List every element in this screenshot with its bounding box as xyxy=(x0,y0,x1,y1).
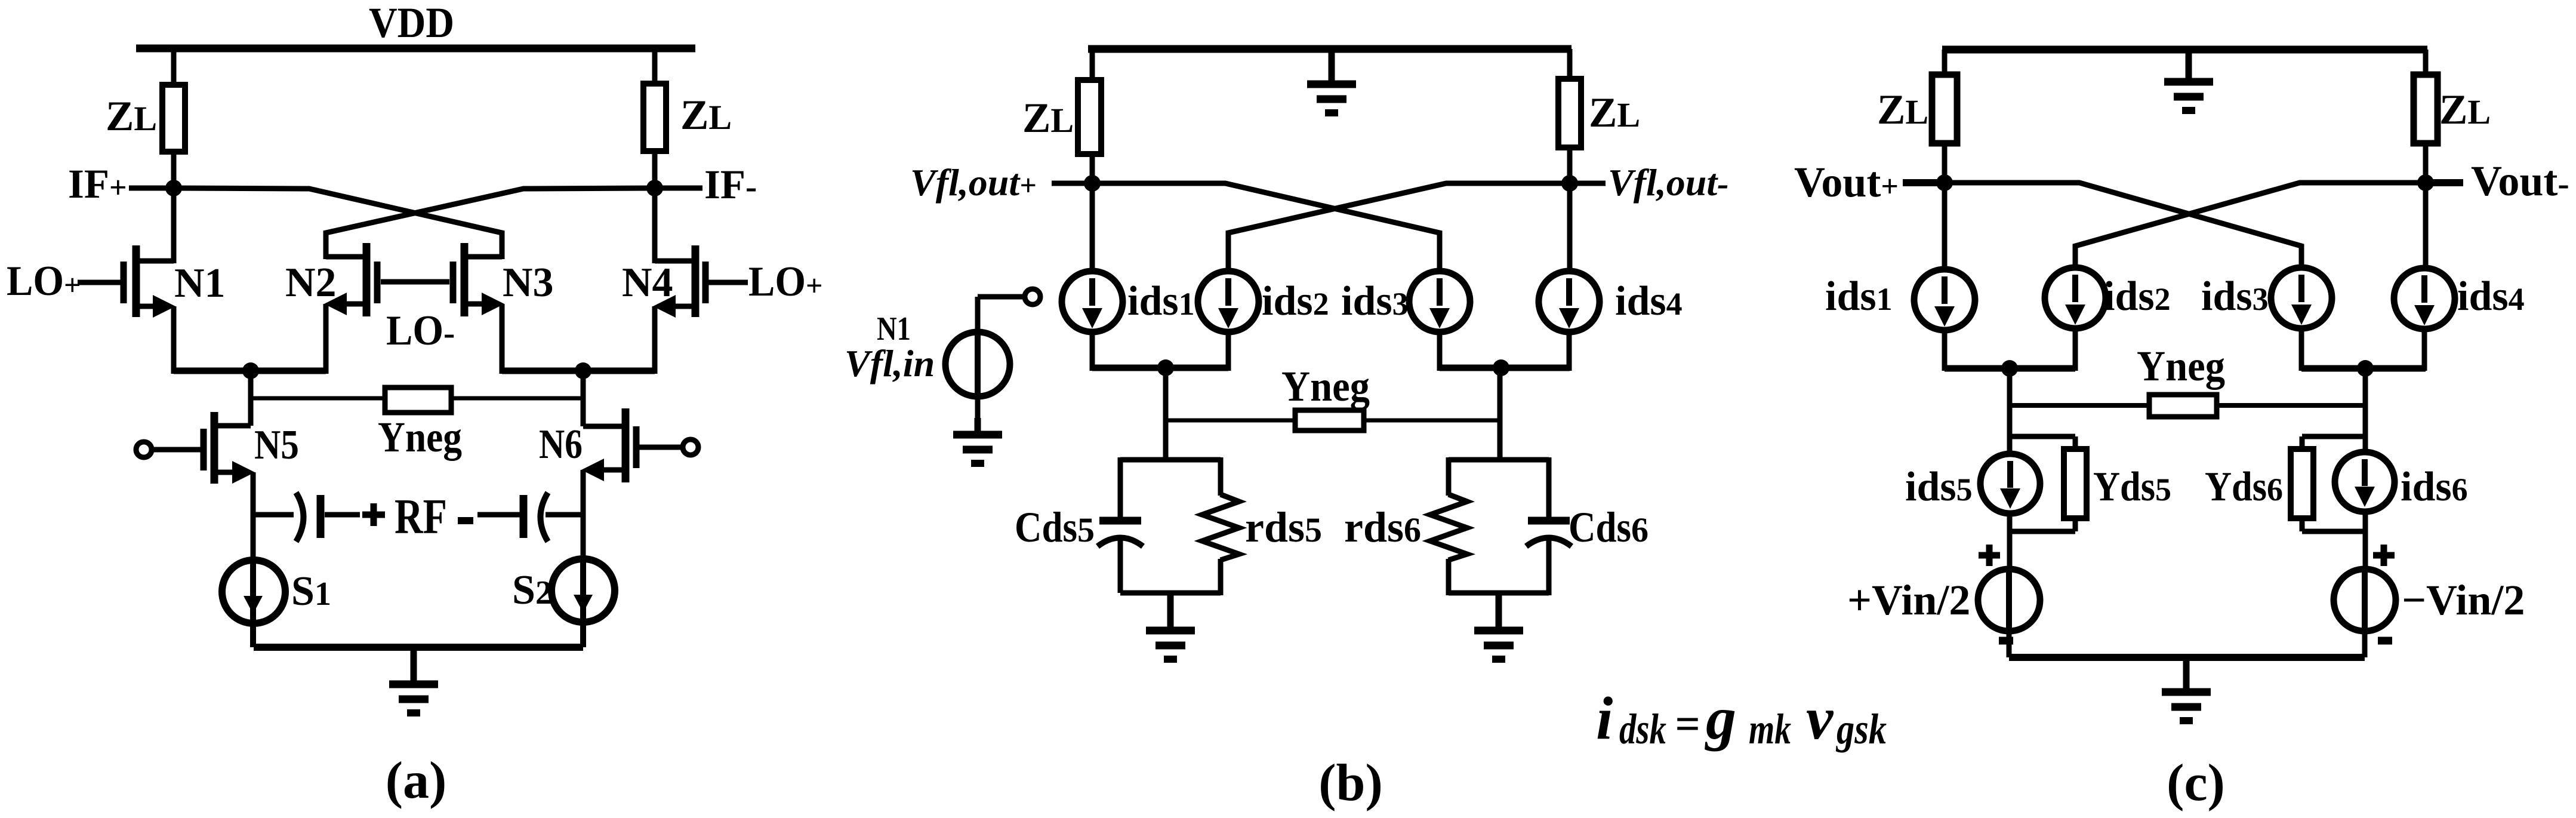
label minus sign (Vin- source) xyxy=(2378,637,2392,645)
label S1 xyxy=(291,568,331,614)
label N6 xyxy=(539,422,583,468)
current source ids3 arrow (b) xyxy=(1429,278,1450,328)
svg-text:(b): (b) xyxy=(1318,754,1383,812)
svg-text:N1: N1 xyxy=(174,260,226,306)
svg-text:ZL: ZL xyxy=(1877,87,1928,133)
current source ids4 arrow (b) xyxy=(1559,278,1579,328)
transistor N1 channel bar xyxy=(133,245,140,317)
current source S1 arrow xyxy=(244,596,263,614)
transistor N5 drain stub xyxy=(218,423,251,429)
transistor N6 gate wire xyxy=(639,445,683,450)
transistor N6 gate bar xyxy=(633,426,640,468)
node label Vfl,out- xyxy=(1608,161,1728,204)
node label IF- xyxy=(704,162,757,207)
label N3 xyxy=(503,260,554,306)
label N4 xyxy=(622,260,673,306)
wire left tail to N5 drain xyxy=(248,371,254,426)
label N1 xyxy=(174,260,226,306)
wire S1 through xyxy=(250,564,256,647)
wire Yds5 top lead xyxy=(2073,436,2078,451)
current source ids1 arrow (c) xyxy=(1934,276,1955,327)
label Yds6 xyxy=(2205,464,2283,510)
capacitor Cds6 flat plate xyxy=(1528,517,1570,525)
wire N6 source down xyxy=(581,470,586,562)
capacitor Cds5 flat plate xyxy=(1099,517,1141,525)
wire ids4 bottom (c) xyxy=(2422,329,2427,371)
svg-text:(c): (c) xyxy=(2167,754,2225,812)
wire N5 source down xyxy=(251,472,256,564)
wire rc6 box top xyxy=(1449,457,1549,463)
svg-text:ZL: ZL xyxy=(106,93,157,140)
svg-text:rds5: rds5 xyxy=(1245,503,1322,551)
label LO+ (left) xyxy=(7,258,81,305)
label ZL (b left) xyxy=(1022,95,1074,142)
svg-text:rds6: rds6 xyxy=(1344,503,1421,551)
node label Vout+ xyxy=(1794,158,1899,206)
transistor N1 gate wire xyxy=(78,280,122,285)
ground (b top) xyxy=(1307,49,1356,113)
svg-text:(a): (a) xyxy=(386,752,447,810)
wire rc6 box left upper xyxy=(1446,457,1452,496)
current source ids1 circle (b) xyxy=(1062,271,1123,332)
wire rc5 box top xyxy=(1120,457,1221,463)
wire right tail bus xyxy=(502,368,655,374)
ground (c top) xyxy=(2164,50,2213,110)
resistor ZL (b right) xyxy=(1558,79,1581,147)
label (b) xyxy=(1318,754,1383,812)
transistor N1 drain stub xyxy=(136,259,174,264)
resistor Yds5 xyxy=(2064,449,2087,518)
transistor N3 gate bar xyxy=(450,262,457,303)
transistor N6 source arrow xyxy=(581,459,604,481)
wire Vfl,out+ stub xyxy=(1052,181,1092,186)
svg-text:VDD: VDD xyxy=(369,0,454,47)
capacitor RF left curved plate xyxy=(296,493,304,542)
svg-text:Vfl,in: Vfl,in xyxy=(845,342,935,385)
net label VDD xyxy=(369,0,454,47)
wire N3 source down xyxy=(500,304,505,374)
label ids4 (c) xyxy=(2457,273,2525,319)
wire Yds6 bottom stub xyxy=(2302,529,2365,534)
svg-text:+Vin/2: +Vin/2 xyxy=(1847,576,1970,624)
wire cross-couple Vfl,out- to ids2 xyxy=(1228,183,1570,272)
current source ids4 arrow (c) xyxy=(2414,275,2435,325)
junction IF- xyxy=(646,180,663,196)
wire VDD to ZL left xyxy=(171,45,177,87)
current source S2 circle xyxy=(551,559,615,622)
label RF plus sign xyxy=(362,503,385,526)
wire ZL right to IF- node xyxy=(652,149,658,191)
svg-text:ZL: ZL xyxy=(2439,87,2491,133)
wire bus to ZL (b left) xyxy=(1090,49,1095,82)
wire Vfl,in top xyxy=(975,297,981,334)
svg-text:S2: S2 xyxy=(512,567,552,613)
current source S1 circle xyxy=(222,560,285,623)
transistor N1 gate bar xyxy=(121,262,127,303)
transistor N4 drain stub xyxy=(655,259,695,264)
current source ids3 circle (b) xyxy=(1409,271,1470,332)
wire ids6 to Vin- source xyxy=(2363,511,2368,571)
label Cds6 xyxy=(1569,503,1648,551)
current source ids1 arrow (b) xyxy=(1082,278,1102,328)
wire ids1 bottom (b) xyxy=(1090,332,1095,371)
wire rc6 box bottom xyxy=(1449,591,1549,596)
ground (c bottom) xyxy=(2162,657,2211,721)
wire Vfl,in through xyxy=(975,332,981,398)
node label Vfl,out+ xyxy=(910,161,1037,204)
equation idsk = gmk vgsk xyxy=(1596,685,1887,753)
transistor N3 source arrow xyxy=(482,293,504,315)
svg-text:S1: S1 xyxy=(291,568,331,614)
label plus sign (Vin+ source) xyxy=(1979,545,2000,566)
label Yds5 xyxy=(2093,464,2171,510)
wire ids3 bottom (b) xyxy=(1437,332,1443,371)
transistor N3 channel bar xyxy=(461,243,469,316)
transistor N6 channel bar xyxy=(622,408,630,482)
svg-text:N6: N6 xyxy=(539,422,583,468)
svg-text:Cds5: Cds5 xyxy=(1015,503,1095,551)
wire ids3 bottom (c) xyxy=(2299,328,2304,371)
label ZL (a right) xyxy=(680,92,732,139)
label ids5 xyxy=(1905,464,1973,510)
label (c) xyxy=(2167,754,2225,812)
transistor N5 gate wire xyxy=(152,447,201,453)
svg-text:−Vin/2: −Vin/2 xyxy=(2402,576,2525,624)
wire Vfl,out- to ids4 xyxy=(1567,183,1573,273)
wire Vfl,in bottom xyxy=(975,396,981,432)
wire N2-N3 gate link xyxy=(381,279,449,285)
wire bottom bus (c) xyxy=(2009,654,2365,661)
svg-text:N4: N4 xyxy=(622,260,673,306)
resistor ZL (a left) xyxy=(162,85,185,152)
wire Vfl,out- stub xyxy=(1570,181,1606,186)
transistor N6 source stub xyxy=(598,468,622,473)
wire rc6 box right lower xyxy=(1546,536,1552,595)
voltage source -Vin/2 circle xyxy=(2334,569,2396,631)
resistor rds6 zigzag xyxy=(1430,494,1467,560)
wire ZL left to IF+ node xyxy=(171,149,177,191)
wire Yneg left (c) xyxy=(2010,403,2152,408)
wire cross-couple Vfl,out+ to ids3 xyxy=(1092,183,1440,272)
label Cds5 xyxy=(1015,503,1095,551)
junction left tail (c) xyxy=(2001,360,2018,377)
wire RF left to plus xyxy=(325,512,360,518)
wire Yds6 top stub xyxy=(2302,434,2365,439)
label Yneg (b) xyxy=(1281,362,1370,410)
resistor ZL (c right) xyxy=(2414,75,2438,143)
transistor N1 source arrow xyxy=(153,295,175,318)
ground (Vfl,in) xyxy=(953,418,1002,463)
junction right tail node xyxy=(575,362,591,379)
junction Vfl,out+ xyxy=(1084,175,1101,192)
svg-text:ZL: ZL xyxy=(1022,95,1074,142)
wire N1 source down xyxy=(171,306,177,374)
junction right tail (c) xyxy=(2357,360,2374,377)
wire Yds5 top stub xyxy=(2010,434,2075,439)
wire top bus (b) xyxy=(1088,45,1572,53)
junction left tail node xyxy=(242,362,259,379)
current source ids1 circle (c) xyxy=(1914,269,1975,330)
current source ids6 circle xyxy=(2335,452,2395,512)
junction left tail (b) xyxy=(1157,359,1174,376)
transistor N1 source stub xyxy=(136,304,164,309)
svg-text:Yneg: Yneg xyxy=(1281,362,1370,410)
wire rc6 box left lower xyxy=(1446,559,1452,595)
junction Vfl,out- xyxy=(1561,175,1578,192)
wire IF+ stub xyxy=(129,186,174,191)
svg-text:Vfl,out-: Vfl,out- xyxy=(1608,161,1728,204)
voltage source +Vin/2 circle xyxy=(1978,569,2040,631)
svg-text:Yneg: Yneg xyxy=(2137,342,2225,390)
label S2 xyxy=(512,567,552,613)
wire RF right to cap xyxy=(477,512,523,518)
label LO+ (right) xyxy=(748,259,823,305)
label RF xyxy=(395,489,447,545)
wire bus to ZL (c left) xyxy=(1942,50,1948,77)
transistor N2 gate bar xyxy=(374,262,381,303)
wire ids2 bottom (b) xyxy=(1226,332,1231,371)
svg-text:IF-: IF- xyxy=(704,162,757,207)
wire rc5 box right lower xyxy=(1218,559,1224,595)
transistor N4 gate wire xyxy=(708,280,748,285)
capacitor RF right flat plate xyxy=(520,495,528,538)
current source ids2 arrow (b) xyxy=(1218,278,1238,328)
transistor N2 channel bar xyxy=(363,243,371,316)
wire Vout- stub xyxy=(2426,179,2463,186)
resistor Yneg (b) xyxy=(1295,410,1364,430)
current source ids5 circle xyxy=(1980,454,2040,513)
capacitor RF left flat plate xyxy=(317,495,325,538)
transistor N6 drain stub xyxy=(583,424,622,429)
wire Vfl,in terminal xyxy=(978,294,1025,300)
wire Yneg left (a) xyxy=(251,396,387,401)
wire Vfl,out+ to ids1 xyxy=(1090,183,1095,273)
label N2 xyxy=(285,260,337,306)
label ids3 (c) xyxy=(2201,273,2269,319)
svg-text:dsk: dsk xyxy=(1619,705,1666,753)
transistor N4 channel bar xyxy=(692,245,700,317)
node label Vout- xyxy=(2471,157,2569,205)
label ids1 (b) xyxy=(1127,278,1195,324)
svg-text:i: i xyxy=(1596,685,1613,752)
svg-text:=: = xyxy=(1675,700,1700,749)
svg-text:Yneg: Yneg xyxy=(378,413,462,461)
terminal Vfl,in xyxy=(1025,289,1040,305)
label N5 xyxy=(254,422,299,468)
wire right tail bus (c) xyxy=(2301,365,2426,372)
transistor N2 source arrow xyxy=(324,293,347,315)
current source ids4 circle (c) xyxy=(2394,268,2455,329)
label N1 (b source) xyxy=(877,310,911,348)
transistor N4 source arrow xyxy=(653,295,676,318)
svg-text:ZL: ZL xyxy=(1589,90,1640,136)
wire ZL to Vfl,out- node xyxy=(1567,145,1573,186)
resistor rds5 zigzag xyxy=(1202,494,1239,560)
label (a) xyxy=(386,752,447,810)
label Vfl,in xyxy=(845,342,935,385)
svg-text:N3: N3 xyxy=(503,260,554,306)
wire left tail down (b) xyxy=(1163,368,1169,460)
wire right tail bus (b) xyxy=(1440,365,1570,371)
resistor Yds6 xyxy=(2291,449,2313,518)
wire Yneg right (c) xyxy=(2214,403,2365,408)
label ids3 (b) xyxy=(1341,278,1409,324)
current source ids4 circle (b) xyxy=(1539,271,1600,332)
svg-text:mk: mk xyxy=(1749,705,1791,753)
wire ZL to Vfl,out+ node xyxy=(1090,152,1095,186)
wire cross-couple IF+ to N3 drain xyxy=(174,188,502,259)
wire Vin+ to bus xyxy=(2007,631,2012,657)
resistor ZL (b left) xyxy=(1078,80,1101,154)
wire rc5 box right upper xyxy=(1218,457,1224,496)
wire S2 through xyxy=(580,562,586,647)
wire RF tap right xyxy=(546,512,583,518)
transistor N3 drain stub xyxy=(464,254,502,260)
svg-text:Vout-: Vout- xyxy=(2471,157,2569,205)
label Yneg (a) xyxy=(378,413,462,461)
wire ids2 bottom (c) xyxy=(2073,328,2078,371)
wire Vin+ through xyxy=(2006,569,2012,632)
resistor Yneg (a) xyxy=(385,388,451,413)
wire bottom bus (a) xyxy=(254,644,583,651)
svg-text:Vfl,out+: Vfl,out+ xyxy=(910,161,1037,204)
current source ids2 circle (b) xyxy=(1198,271,1259,332)
wire ids1 bottom (c) xyxy=(1942,330,1948,371)
wire VDD to ZL right xyxy=(652,45,658,86)
current source ids5 arrow xyxy=(2000,461,2020,509)
wire Yds5 bottom stub xyxy=(2010,529,2075,534)
wire Vout+ to ids1 xyxy=(1942,183,1948,271)
label +Vin/2 xyxy=(1847,576,1970,624)
transistor N5 gate bar xyxy=(201,429,207,470)
junction Vout+ xyxy=(1936,174,1953,191)
wire top bus (c) xyxy=(1942,46,2427,54)
junction Vout- xyxy=(2417,174,2434,191)
wire Vin- through xyxy=(2362,569,2368,632)
wire rc5 box left lower xyxy=(1118,536,1123,593)
wire Vout+ stub xyxy=(1903,179,1945,186)
transistor N5 source stub xyxy=(218,470,241,475)
svg-text:Cds6: Cds6 xyxy=(1569,503,1648,551)
wire IF- stub xyxy=(655,186,702,191)
label RF minus sign xyxy=(458,517,473,524)
svg-text:gsk: gsk xyxy=(1835,705,1887,753)
wire right tail to N6 drain xyxy=(581,371,586,426)
junction right tail (b) xyxy=(1493,359,1509,376)
wire Yds5 bottom lead xyxy=(2073,516,2078,531)
wire VDD bus xyxy=(136,45,695,53)
resistor ZL (c left) xyxy=(1932,75,1957,143)
wire IF- node to N4 drain xyxy=(652,188,658,263)
capacitor Cds5 curved plate xyxy=(1098,538,1143,547)
capacitor RF right curved plate xyxy=(541,493,549,542)
junction IF+ xyxy=(165,180,182,196)
ground (b left) xyxy=(1146,593,1195,659)
label ZL (c left) xyxy=(1877,87,1928,133)
label rds5 xyxy=(1245,503,1322,551)
ground (a) xyxy=(389,647,438,713)
transistor N4 gate bar xyxy=(702,262,709,303)
voltage source Vfl,in circle xyxy=(945,332,1010,396)
label ids2 (b) xyxy=(1262,278,1329,324)
wire rc6 box right upper xyxy=(1546,457,1552,517)
wire cross-couple Vout+ to ids3 xyxy=(1945,183,2301,270)
wire left tail bus (b) xyxy=(1092,365,1228,371)
label ids6 xyxy=(2401,464,2468,510)
wire Vin- to bus xyxy=(2362,631,2368,657)
label ids2 (c) xyxy=(2103,273,2171,319)
current source ids3 arrow (c) xyxy=(2291,275,2312,325)
current source ids6 arrow xyxy=(2355,459,2375,507)
svg-text:RF: RF xyxy=(395,489,447,545)
label LO- xyxy=(386,307,455,354)
svg-text:LO-: LO- xyxy=(386,307,455,354)
transistor N2 drain stub xyxy=(326,254,366,260)
wire ids4 bottom (b) xyxy=(1567,332,1572,371)
node label IF+ xyxy=(68,161,127,207)
svg-text:ZL: ZL xyxy=(680,92,732,139)
transistor N4 source stub xyxy=(668,304,695,309)
wire cross-couple IF- to N2 drain xyxy=(326,188,655,259)
transistor N5 source arrow xyxy=(232,461,255,484)
label ids1 (c) xyxy=(1825,273,1893,319)
current source ids3 circle (c) xyxy=(2271,267,2332,328)
wire rc5 box bottom xyxy=(1120,591,1221,596)
wire right tail down (c) xyxy=(2363,368,2368,455)
wire Vout- to ids4 xyxy=(2423,183,2429,269)
svg-text:N5: N5 xyxy=(254,422,299,468)
svg-text:g: g xyxy=(1705,685,1736,752)
wire Yneg right (a) xyxy=(449,396,583,401)
wire ZL to Vout- node xyxy=(2423,141,2429,186)
wire bus to ZL (b right) xyxy=(1567,49,1573,81)
resistor Yneg (c) xyxy=(2149,395,2217,417)
wire RF tap left xyxy=(253,512,294,518)
label Yneg (c) xyxy=(2137,342,2225,390)
wire ids5 to Vin+ source xyxy=(2007,512,2013,571)
current source ids2 arrow (c) xyxy=(2065,275,2085,325)
capacitor Cds6 curved plate xyxy=(1526,538,1572,547)
wire N4 source down xyxy=(652,306,658,374)
wire IF+ node to N1 drain xyxy=(171,188,177,263)
label -Vin/2 xyxy=(2402,576,2525,624)
current source ids2 circle (c) xyxy=(2045,267,2106,328)
label ZL (c right) xyxy=(2439,87,2491,133)
label rds6 xyxy=(1344,503,1421,551)
wire bus to ZL (c right) xyxy=(2423,50,2429,77)
label ids4 (b) xyxy=(1615,278,1683,324)
transistor N5 channel bar xyxy=(211,412,218,484)
label plus sign (Vin- source) xyxy=(2373,545,2395,566)
wire Yneg right (b) xyxy=(1361,419,1500,423)
terminal N6 gate xyxy=(683,439,698,455)
wire left tail bus xyxy=(174,368,326,374)
svg-text:v: v xyxy=(1806,685,1834,752)
wire N2 source down xyxy=(323,304,329,374)
label minus sign (Vin+ source) xyxy=(1999,637,2013,645)
transistor N2 source stub xyxy=(340,302,366,307)
current source S2 arrow xyxy=(574,595,593,613)
svg-text:N2: N2 xyxy=(285,260,337,306)
wire left tail down (c) xyxy=(2007,368,2013,456)
transistor N3 source stub xyxy=(464,302,491,307)
resistor ZL (a right) xyxy=(643,84,666,151)
wire rc5 box left upper xyxy=(1118,457,1123,517)
wire Yds6 top lead xyxy=(2300,436,2305,451)
wire Yneg left (b) xyxy=(1166,419,1298,423)
wire cross-couple Vout- to ids2 xyxy=(2075,183,2426,270)
label ZL (a left) xyxy=(106,93,157,140)
